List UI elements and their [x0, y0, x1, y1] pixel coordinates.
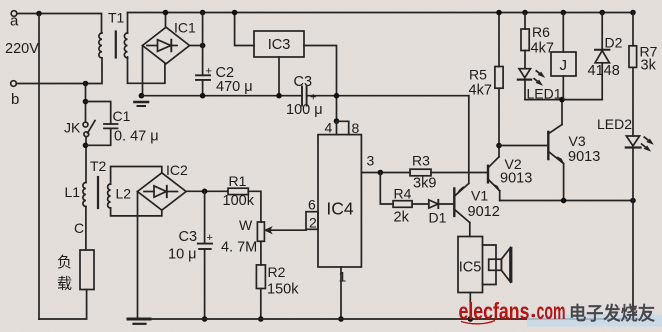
label 4.7M — [221, 240, 257, 256]
label 9012 — [468, 204, 500, 220]
transistor V3 — [548, 125, 564, 164]
wire V2 emitter down — [499, 191, 501, 201]
label R7 — [640, 44, 658, 60]
label 10u — [168, 247, 197, 263]
node R5/V3 base — [496, 143, 502, 149]
svg-text:V1: V1 — [471, 188, 488, 204]
watermark elecfans.com — [459, 298, 566, 324]
svg-text:T2: T2 — [90, 158, 107, 174]
wire L2 top to IC2 — [111, 167, 162, 185]
label W — [239, 217, 253, 233]
node pin3/R4 branch — [378, 170, 384, 176]
svg-text:8: 8 — [352, 120, 360, 136]
wire top rail — [128, 12, 634, 14]
label 4148 — [588, 63, 620, 79]
diode D2 — [595, 50, 609, 63]
resistor R2 — [256, 265, 265, 289]
svg-text:+: + — [206, 66, 212, 78]
capacitor C3 10u — [198, 244, 212, 249]
node IC3 out/rail — [334, 93, 340, 99]
wire L2 bottom to IC2 — [111, 208, 162, 216]
wire D2 to bus — [601, 63, 603, 100]
wire +V rail y96 — [141, 95, 468, 97]
svg-text:W: W — [239, 217, 253, 233]
label 220V — [5, 41, 39, 57]
wire IC3 input from rail — [235, 13, 254, 46]
wire emitter rail — [500, 200, 633, 202]
svg-text:470 μ: 470 μ — [216, 79, 253, 95]
label J — [560, 57, 568, 74]
speaker bracket — [483, 245, 497, 285]
node junction b/JK branch — [83, 81, 89, 87]
node rail/IC1 top — [163, 10, 169, 16]
svg-text:4: 4 — [325, 120, 333, 136]
wire IC5 to ground rail — [469, 293, 471, 320]
speaker magnet — [489, 259, 502, 270]
svg-text:+: + — [310, 92, 316, 104]
svg-text:4. 7M: 4. 7M — [221, 240, 257, 256]
terminal a — [11, 11, 17, 17]
svg-text:3k9: 3k9 — [413, 176, 436, 192]
bridge rectifier IC2 — [138, 173, 187, 210]
svg-text:2k: 2k — [394, 210, 410, 226]
svg-text:100 μ: 100 μ — [286, 102, 323, 118]
svg-text:4k7: 4k7 — [469, 83, 492, 99]
node emitter rail/LED2 line — [630, 198, 636, 204]
label IC5 — [459, 260, 482, 276]
label 9013 V2 — [500, 171, 532, 187]
label 100u — [286, 102, 323, 118]
wire JK to L1 — [85, 137, 87, 183]
svg-text:R1: R1 — [229, 173, 247, 189]
node C1 top junction — [83, 99, 89, 105]
diode inside IC1 — [147, 40, 177, 52]
transformer T2 winding L1 — [83, 183, 86, 207]
svg-text:0. 47 μ: 0. 47 μ — [114, 129, 159, 145]
svg-text:C3: C3 — [294, 74, 313, 90]
node C2 line / IC1 out — [200, 43, 206, 49]
svg-text:com: com — [537, 298, 566, 324]
svg-text:L1: L1 — [65, 184, 81, 200]
label V2 — [505, 156, 522, 172]
label 2k — [394, 210, 410, 226]
diode D1 — [429, 200, 439, 208]
wire rail to D2 — [601, 13, 603, 50]
label V1 — [471, 188, 488, 204]
wire R4 branch — [380, 173, 393, 205]
capacitor C1 — [86, 102, 118, 146]
label pin1 — [339, 269, 347, 285]
svg-text:LED1: LED1 — [527, 86, 562, 102]
wire +rail down to V1 emitter — [468, 96, 470, 184]
transformer T1 secondary winding — [124, 33, 127, 58]
node rail/R7 — [630, 10, 636, 16]
label R3 — [412, 153, 430, 169]
label pin4 — [325, 120, 333, 136]
svg-text:负: 负 — [57, 254, 72, 271]
regulator IC3 — [254, 31, 304, 57]
svg-text:2: 2 — [309, 215, 317, 231]
transformer T2 winding L2 — [108, 184, 111, 208]
pin 2 box — [306, 212, 318, 230]
svg-text:V3: V3 — [569, 133, 586, 149]
label LED1 — [527, 86, 562, 102]
transistor V1 — [454, 183, 470, 222]
svg-text:3k: 3k — [641, 58, 657, 74]
label R5 — [469, 67, 487, 83]
svg-text:elecfans: elecfans — [459, 298, 530, 324]
svg-text:6: 6 — [308, 197, 316, 213]
node C1 bottom junction — [83, 143, 89, 149]
diode inside IC2 — [144, 186, 178, 197]
node IC2 out/C3 branch — [202, 189, 208, 195]
svg-text:R3: R3 — [412, 153, 430, 169]
resistor R5 — [495, 67, 503, 89]
wire T1 secondary bottom to bridge AC — [128, 57, 165, 83]
svg-text:C1: C1 — [113, 108, 131, 124]
node IC3 gnd/rail — [276, 93, 282, 99]
wire rail to R7 — [632, 13, 634, 46]
wire LED1/J/D2 bottom bus — [525, 99, 602, 101]
svg-text:IC5: IC5 — [459, 260, 482, 276]
svg-text:C3: C3 — [179, 229, 198, 245]
label 3k — [641, 58, 657, 74]
resistor R7 — [629, 46, 637, 68]
node rail/C2 line — [200, 10, 206, 16]
svg-text:150k: 150k — [267, 282, 299, 298]
ground symbol bottom left — [128, 319, 150, 324]
label IC4 — [326, 199, 354, 219]
wire IC1 top vertex to rail — [165, 13, 167, 28]
label 150k — [267, 282, 299, 298]
load resistor box — [80, 250, 94, 290]
transformer T1 core — [115, 32, 117, 58]
node junction a/left-rail — [36, 11, 42, 17]
wire L1 to load — [85, 207, 87, 251]
wire V3 base — [499, 145, 548, 147]
wire D1 to V1 base — [438, 203, 454, 205]
wire IC3 ground pin — [278, 57, 280, 96]
node C2/rail — [200, 93, 206, 99]
svg-text:4148: 4148 — [588, 63, 620, 79]
label R4 — [394, 186, 412, 202]
label 470u — [216, 79, 253, 95]
label R2 — [268, 264, 286, 280]
wire a to T1 primary top — [17, 14, 102, 34]
resistor R1 — [228, 188, 248, 194]
label 0.47u — [114, 129, 159, 145]
svg-text:4k7: 4k7 — [531, 41, 554, 57]
node rail/IC3 input — [232, 10, 238, 16]
svg-text:T1: T1 — [108, 10, 125, 26]
svg-text:220V: 220V — [5, 41, 39, 57]
svg-text:3: 3 — [367, 153, 375, 169]
wire rail to relay J — [562, 13, 564, 53]
resistor R3 — [410, 169, 431, 176]
relay J — [551, 52, 576, 76]
svg-text:10 μ: 10 μ — [168, 247, 197, 263]
label pin8 — [352, 120, 360, 136]
transformer T1 primary winding — [99, 33, 102, 58]
label 3k9 — [413, 176, 436, 192]
speaker cone — [501, 248, 511, 281]
label JK — [64, 120, 81, 136]
wire R2 to ground rail — [260, 289, 262, 320]
svg-text:D2: D2 — [605, 35, 623, 51]
svg-text:R6: R6 — [532, 24, 550, 40]
watermark chinese — [569, 303, 655, 324]
label b — [11, 91, 19, 108]
node R2/rail — [258, 316, 264, 322]
node pin1/rail — [338, 316, 344, 322]
wire V3 emitter down — [563, 164, 565, 201]
svg-text:JK: JK — [64, 120, 81, 136]
label R1 — [229, 173, 247, 189]
wire rail to R6 — [524, 13, 526, 30]
resistor R6 — [521, 29, 529, 51]
svg-text:+: + — [207, 232, 213, 244]
svg-text:9013: 9013 — [568, 149, 600, 165]
node rail/D2 — [599, 10, 605, 16]
label C3 100u — [294, 74, 313, 90]
label pin2 — [309, 215, 317, 231]
label IC3 — [268, 37, 291, 53]
wire V3 collector up — [561, 100, 563, 125]
wire IC2 output to R1 — [186, 190, 228, 192]
transistor V2 — [488, 157, 500, 191]
node pin4/8 junction — [334, 118, 340, 124]
label pin3 — [367, 153, 375, 169]
label LED2 — [597, 116, 632, 132]
svg-text:IC3: IC3 — [268, 37, 291, 53]
LED1 — [518, 69, 544, 85]
potentiometer W — [257, 222, 306, 241]
svg-text:IC2: IC2 — [166, 162, 188, 178]
label a — [10, 13, 19, 30]
label D2 — [605, 35, 623, 51]
svg-text:C: C — [74, 220, 84, 236]
wire J to bus — [562, 76, 564, 100]
wire b to T1 primary bottom — [16, 58, 102, 84]
label R6 — [532, 24, 550, 40]
label plus C3 100u — [310, 92, 316, 104]
watermark highlight band — [527, 315, 662, 327]
label pin6 — [308, 197, 316, 213]
node rail/J — [561, 10, 567, 16]
svg-text:R5: R5 — [469, 67, 487, 83]
node C3/rail — [202, 316, 208, 322]
label C3 10u — [179, 229, 198, 245]
svg-text:9013: 9013 — [500, 171, 532, 187]
label IC2 — [166, 162, 188, 178]
wire R6 to LED1 — [524, 51, 526, 69]
wire IC1 right vertex to C2 line — [190, 45, 203, 47]
label 4k7 R6 — [531, 41, 554, 57]
wire R4 to D1 — [412, 203, 429, 205]
wire C3 10u vertical — [204, 191, 206, 319]
svg-text:1: 1 — [339, 269, 347, 285]
node bus/V3 collector — [559, 97, 565, 103]
label L1 — [65, 184, 81, 200]
label T2 — [90, 158, 107, 174]
svg-text:R4: R4 — [394, 186, 412, 202]
wire IC2 left vertex to ground rail — [137, 192, 139, 320]
label T1 — [108, 10, 125, 26]
wire R7 to LED2 — [632, 67, 634, 136]
svg-text:R2: R2 — [268, 264, 286, 280]
label plus C3 10u — [207, 232, 213, 244]
capacitor C2 — [196, 75, 210, 80]
svg-text:100k: 100k — [223, 193, 255, 209]
svg-text:电子发烧友: 电子发烧友 — [569, 303, 655, 324]
ground — [135, 102, 149, 106]
wire V1 collector to IC5 — [469, 223, 471, 237]
label V3 — [569, 133, 586, 149]
node rail/R6 — [522, 10, 528, 16]
terminal b — [11, 81, 17, 87]
node V3 emitter/rail — [561, 198, 567, 204]
resistor R4 — [393, 201, 412, 208]
bridge rectifier IC1 — [143, 27, 190, 64]
svg-text:L2: L2 — [116, 186, 132, 202]
node rail/R5 — [496, 10, 502, 16]
transformer T2 core — [97, 177, 99, 208]
wire pin1 to ground rail — [340, 267, 342, 319]
wire bottom of 220V loop — [39, 290, 87, 320]
wire V2 collector/R5 line — [498, 13, 500, 157]
label L2 — [116, 186, 132, 202]
svg-text:LED2: LED2 — [597, 116, 632, 132]
wire pin3 output — [361, 172, 410, 174]
wire W to R2 — [260, 241, 262, 265]
node IC5/rail — [468, 316, 474, 322]
wire pin8 bracket — [337, 121, 349, 134]
wire left rail down — [38, 14, 40, 320]
wire pin4 lead — [336, 121, 338, 135]
switch JK — [83, 121, 95, 137]
capacitor C3 100u (series bars) — [302, 87, 307, 106]
label 4k7 R5 — [469, 83, 492, 99]
svg-text:9012: 9012 — [468, 204, 500, 220]
label 100k — [223, 193, 255, 209]
wire R3 to V2 base — [431, 172, 488, 174]
wire C2 vertical — [202, 13, 204, 96]
wire LED1 cathode down — [524, 80, 526, 100]
LED2 — [626, 136, 653, 151]
wire LED2 down to ground rail — [632, 148, 634, 320]
node ground junction — [139, 93, 145, 99]
svg-text:载: 载 — [57, 276, 72, 293]
label plus C2 — [206, 66, 212, 78]
label C1 — [113, 108, 131, 124]
label 9013 V3 — [568, 149, 600, 165]
label D1 — [429, 210, 447, 226]
wire IC1 left vertex to ground — [142, 46, 144, 96]
svg-text:IC4: IC4 — [326, 199, 354, 219]
wire IC3 output down to IC4 pins — [304, 46, 337, 122]
label IC1 — [174, 20, 196, 36]
op-amp IC4 — [318, 135, 361, 267]
wire b branch down to JK — [85, 84, 87, 123]
svg-text:b: b — [11, 91, 19, 108]
svg-text:IC1: IC1 — [174, 20, 196, 36]
label load — [57, 254, 72, 293]
label C2 — [216, 65, 235, 81]
amplifier IC5 — [458, 237, 483, 293]
svg-text:J: J — [560, 57, 568, 74]
wire R1 to W — [248, 191, 261, 222]
ground rail bottom — [128, 318, 633, 320]
svg-text:a: a — [10, 13, 19, 30]
svg-text:D1: D1 — [429, 210, 447, 226]
wire T1 secondary top to +rail — [127, 13, 129, 34]
label C — [74, 220, 84, 236]
